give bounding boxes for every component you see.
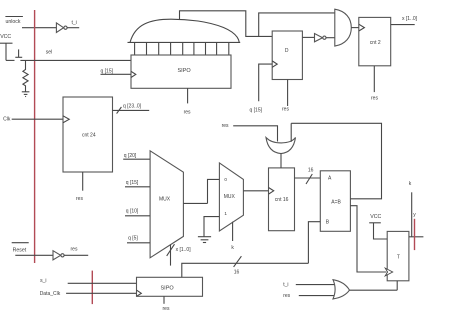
wire sel net [20, 59, 131, 61]
counter cnt24 [63, 97, 113, 172]
node q[10] [125, 209, 150, 216]
flip-flop D [272, 31, 302, 80]
wire MUX1 out to MUX2 in0 [208, 179, 220, 203]
wire SIPO2 res [163, 296, 165, 304]
wire MUX2 output [243, 190, 268, 192]
multiplexer MUX1 [150, 151, 183, 258]
clock pin D [272, 61, 277, 67]
svg-text:sel: sel [46, 49, 52, 55]
svg-text:t_i: t_i [283, 282, 288, 288]
flip-flop T [387, 231, 409, 280]
node q[20] [123, 153, 150, 159]
keypad dome cover [130, 19, 239, 42]
wire Reset to inverter [15, 254, 53, 256]
wire dome top to D input [180, 11, 273, 37]
bus slash 16 [306, 174, 312, 184]
wire B input from bus [308, 222, 320, 264]
wire SIPO2 output bus [182, 263, 309, 277]
svg-text:s_i: s_i [40, 278, 46, 284]
wire T bottom input [396, 281, 398, 290]
svg-text:VCC: VCC [370, 214, 381, 220]
svg-text:SIPO: SIPO [178, 68, 192, 74]
clock pin SIPO1 [131, 71, 136, 77]
svg-text:t_i: t_i [72, 20, 77, 26]
wire cnt16 to comparator A [295, 177, 321, 179]
svg-text:q [15]: q [15] [101, 68, 114, 74]
bus slash 16 (sipo2) [234, 256, 242, 267]
svg-text:q [15]: q [15] [250, 107, 263, 113]
svg-text:res: res [163, 306, 170, 312]
probe red line 2 [91, 271, 93, 305]
comparator A=B [320, 171, 350, 232]
wire A=B feedback loop [291, 123, 381, 199]
bus slash q[23..0] [117, 107, 122, 114]
counter cnt16 [269, 168, 295, 231]
keypad base line [128, 41, 241, 43]
probe red line 3 [414, 219, 416, 250]
svg-text:unlock: unlock [6, 19, 21, 25]
svg-text:VCC: VCC [0, 34, 11, 40]
svg-text:T: T [397, 255, 400, 261]
wire D output [302, 36, 314, 38]
svg-text:cnt 16: cnt 16 [275, 197, 289, 203]
wire D res [287, 80, 289, 107]
clock pin cnt2 [359, 24, 365, 31]
wire A=B to T clock [350, 206, 386, 272]
svg-text:y: y [413, 212, 416, 218]
wire inverter U3 output res [64, 254, 88, 256]
counter cnt2 [359, 17, 391, 65]
wire inverter U1 output [67, 27, 79, 29]
node q[15] to SIPO1 clock [101, 68, 132, 74]
wire inverter U2 to AND [326, 37, 335, 39]
svg-text:q [20]: q [20] [124, 153, 137, 159]
power VCC right [369, 214, 387, 239]
svg-text:res: res [222, 123, 229, 129]
wire OR U5 output to cnt16 [280, 153, 282, 168]
wire OR U6 output to T [350, 289, 398, 291]
svg-text:0: 0 [224, 177, 227, 182]
svg-text:SIPO: SIPO [161, 286, 175, 292]
svg-text:q [5]: q [5] [128, 236, 138, 242]
wire cnt24 output bus [113, 109, 150, 111]
wire VCC to switch [6, 59, 15, 61]
svg-text:q [10]: q [10] [126, 209, 139, 215]
wire cnt24 res [82, 172, 84, 191]
wire res to OR U6 [299, 295, 336, 297]
shift register SIPO1 [131, 55, 231, 88]
wire k net [411, 192, 413, 237]
ground G2 [198, 237, 211, 243]
svg-text:cnt 2: cnt 2 [370, 40, 381, 46]
clock pin SIPO2 [137, 290, 142, 296]
node q[5] [127, 236, 150, 243]
wire feedback to OR U5 [290, 123, 292, 142]
wire branch to AND gate [259, 13, 335, 37]
svg-text:cnt 24: cnt 24 [82, 132, 96, 138]
keypad contact teeth [135, 42, 229, 55]
svg-text:Reset: Reset [13, 248, 27, 254]
svg-text:res: res [184, 110, 191, 116]
svg-text:res: res [76, 196, 83, 202]
power VCC left [0, 34, 13, 60]
wire s_i to SIPO2 [68, 282, 137, 284]
svg-text:q [15]: q [15] [126, 180, 139, 186]
svg-text:1: 1 [224, 211, 227, 216]
wire cnt2 output x[1..0] [391, 24, 415, 26]
probe red line 1 [34, 10, 36, 263]
shift register SIPO2 [137, 277, 203, 296]
svg-text:MUX: MUX [224, 194, 236, 200]
wire MUX1 select [170, 245, 172, 266]
wire T output [409, 236, 424, 238]
svg-text:q [23..0]: q [23..0] [123, 104, 142, 110]
wire Clk to cnt24 [12, 118, 63, 120]
wire cnt2 res [373, 66, 375, 92]
svg-text:x [1..0]: x [1..0] [176, 247, 192, 253]
node q[15] (mux) [125, 180, 150, 187]
AND gate U4 [335, 9, 352, 46]
bus slash x[1..0] [167, 244, 175, 256]
node unlock (overline) [5, 17, 23, 26]
inverter U2 [315, 34, 327, 42]
multiplexer MUX2 [219, 163, 243, 231]
wire AND to cnt2 [351, 27, 359, 29]
wire res to OR U5 [233, 126, 277, 142]
svg-text:MUX: MUX [159, 196, 171, 202]
inverter U3 [53, 251, 64, 260]
arrowhead T clock [385, 268, 393, 276]
clock pin cnt16 [269, 188, 274, 195]
svg-text:res: res [371, 95, 378, 101]
wire MUX1 output [183, 202, 207, 204]
wire ground to MUX2 in1 [204, 217, 219, 237]
wire unlock to inverter [22, 27, 56, 29]
svg-text:k: k [409, 181, 412, 187]
svg-text:16: 16 [308, 167, 314, 173]
wire Data_Clk to SIPO2 [66, 292, 136, 294]
node q[15] to D clock [250, 64, 273, 113]
svg-text:res: res [283, 293, 290, 299]
OR gate U6 [333, 280, 350, 299]
svg-text:res: res [71, 246, 78, 252]
wire MUX2 select k [232, 222, 234, 241]
OR gate U5 (reset or) [266, 138, 296, 154]
wire SIPO1 res [187, 88, 189, 103]
inverter U1 [56, 23, 67, 33]
resistor R1 [23, 60, 28, 91]
svg-text:k: k [231, 245, 234, 251]
svg-text:A=B: A=B [331, 200, 341, 206]
ground G1 [22, 92, 30, 97]
clock pin cnt24 [63, 116, 69, 123]
svg-text:Clk: Clk [3, 116, 11, 122]
svg-text:D: D [285, 48, 289, 54]
svg-text:res: res [282, 106, 289, 112]
svg-text:x [1..0]: x [1..0] [402, 16, 418, 22]
wire t_i to OR U6 [296, 284, 336, 286]
node Reset (overline) [12, 243, 29, 254]
switch S1 [15, 49, 22, 57]
svg-text:16: 16 [234, 270, 240, 276]
svg-text:Data_Clk: Data_Clk [40, 291, 61, 297]
